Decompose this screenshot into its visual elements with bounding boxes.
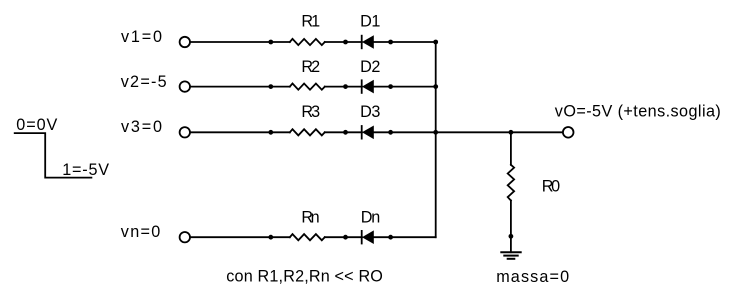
svg-text:v2=-5: v2=-5 <box>121 73 167 91</box>
svg-text:R1: R1 <box>301 13 320 31</box>
svg-text:0=0V: 0=0V <box>16 116 57 134</box>
svg-text:v3=0: v3=0 <box>121 118 162 136</box>
svg-text:massa=0: massa=0 <box>496 268 569 286</box>
svg-text:con R1,R2,Rn << RO: con R1,R2,Rn << RO <box>226 267 383 285</box>
svg-text:R3: R3 <box>301 103 320 121</box>
svg-text:vn=0: vn=0 <box>121 223 161 241</box>
svg-text:R0: R0 <box>542 177 560 195</box>
svg-text:D2: D2 <box>360 58 380 76</box>
svg-text:D3: D3 <box>360 103 380 121</box>
svg-text:R2: R2 <box>301 58 320 76</box>
svg-text:1=-5V: 1=-5V <box>62 161 109 179</box>
svg-text:Dn: Dn <box>361 208 381 226</box>
svg-text:vO=-5V (+tens.soglia): vO=-5V (+tens.soglia) <box>555 103 721 121</box>
svg-text:D1: D1 <box>360 13 380 31</box>
svg-text:v1=0: v1=0 <box>121 28 162 46</box>
svg-text:Rn: Rn <box>301 208 319 226</box>
